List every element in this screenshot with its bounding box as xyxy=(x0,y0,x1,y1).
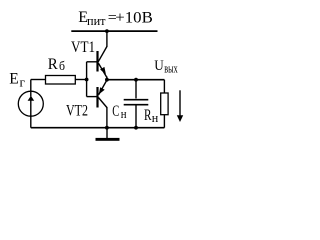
svg-text:U: U xyxy=(154,58,164,74)
svg-text:R: R xyxy=(144,107,152,124)
svg-text:VT1: VT1 xyxy=(71,39,95,56)
svg-text:б: б xyxy=(59,59,65,73)
svg-text:VT2: VT2 xyxy=(66,103,88,120)
svg-text:R: R xyxy=(48,56,59,73)
svg-text:+10В: +10В xyxy=(115,10,153,27)
svg-text:г: г xyxy=(20,75,26,89)
svg-text:пит: пит xyxy=(87,13,106,28)
svg-text:Е: Е xyxy=(9,70,18,87)
svg-text:С: С xyxy=(112,103,119,120)
svg-text:вых: вых xyxy=(164,62,178,76)
svg-text:н: н xyxy=(121,107,127,121)
svg-text:н: н xyxy=(152,111,159,125)
